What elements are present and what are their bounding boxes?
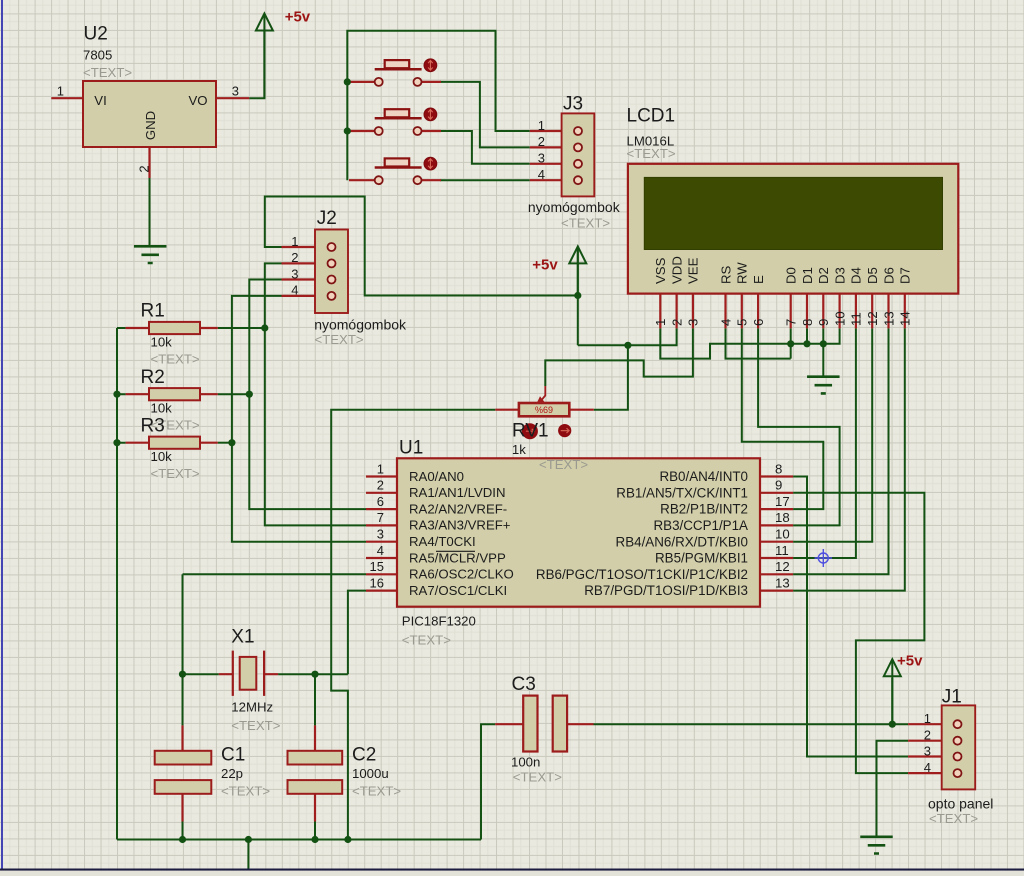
connector J1 opto panel — [942, 705, 976, 789]
connector J2 — [315, 230, 348, 314]
wire RV1 wiper to LCD VEE — [545, 328, 693, 386]
wire C3 right to +5v node to J1 pin1 — [594, 723, 909, 725]
wire LCD E to U1 RB3 — [758, 328, 840, 525]
svg-text:<TEXT>: <TEXT> — [221, 784, 270, 799]
capacitor C2 1000u — [288, 751, 343, 765]
svg-text:+5v: +5v — [532, 257, 558, 274]
svg-text:1: 1 — [57, 84, 64, 99]
wire C1 bottom to bus — [182, 822, 184, 840]
svg-text:2: 2 — [669, 319, 684, 326]
svg-text:RV1: RV1 — [512, 421, 549, 442]
wire RV1 pin1 to ground bus — [331, 410, 495, 840]
svg-text:3: 3 — [291, 266, 298, 281]
wire X1 right to U1 RA7 — [348, 591, 366, 675]
wire U1 RB0 to J1 pin3 — [793, 477, 908, 757]
svg-text:1: 1 — [538, 118, 545, 133]
resistor R2 10k — [149, 388, 200, 400]
wire U2 VO to +5v arrow — [249, 31, 264, 99]
svg-text:C1: C1 — [221, 745, 245, 766]
connector J3 — [562, 113, 595, 196]
svg-text:D5: D5 — [865, 267, 880, 284]
svg-text:2: 2 — [291, 250, 298, 265]
potentiometer RV1 1k body — [519, 403, 569, 416]
wire LCD D7 to U1 RB7 — [793, 328, 905, 590]
svg-text:U2: U2 — [84, 24, 108, 45]
wire U1 RB1 to J1 pin4 — [793, 493, 924, 773]
svg-text:<TEXT>: <TEXT> — [151, 466, 200, 481]
C3 lead stubs — [495, 723, 593, 725]
push button 3 — [375, 166, 422, 169]
svg-text:VI: VI — [94, 93, 106, 108]
microcontroller U1 PIC18F1320 body — [397, 458, 760, 606]
ground under J1 pin2 — [860, 837, 893, 854]
wire +5v arrow stem at J1 — [891, 678, 893, 724]
wire R2 right to junction — [218, 393, 250, 395]
svg-text:7805: 7805 — [83, 48, 112, 63]
power +5v at U2 output — [256, 14, 273, 31]
svg-text:1k: 1k — [512, 442, 526, 457]
junction R1 right — [261, 324, 268, 331]
svg-text:<TEXT>: <TEXT> — [513, 770, 562, 785]
svg-text:RB6/PGC/T1OSO/T1CKI/P1C/KBI2: RB6/PGC/T1OSO/T1CKI/P1C/KBI2 — [536, 567, 748, 582]
push button 2 — [375, 117, 422, 120]
svg-text:D4: D4 — [849, 267, 864, 284]
C1 C2 lead stubs — [183, 725, 316, 821]
wire J2 pin2 / R1 / U1 RA3 net riser — [265, 263, 366, 525]
svg-text:1: 1 — [653, 319, 668, 326]
svg-text:4: 4 — [924, 760, 931, 775]
svg-text:16: 16 — [370, 575, 384, 590]
svg-text:10k: 10k — [151, 401, 173, 416]
wire LCD RS to ground rail — [726, 328, 791, 358]
svg-text:7: 7 — [377, 510, 384, 525]
svg-text:RB5/PGM/KBI1: RB5/PGM/KBI1 — [655, 551, 748, 566]
wire U2 GND pin to ground — [149, 178, 151, 246]
sheet border bottom — [0, 869, 1024, 871]
svg-text:4: 4 — [538, 167, 545, 182]
wire LCD D1 riser — [806, 328, 808, 343]
resistor R3 10k — [149, 437, 200, 449]
svg-text:RW: RW — [735, 262, 750, 284]
wire buttons-common top bus to J3 pin1 — [347, 31, 530, 180]
junction R3 left — [113, 439, 120, 446]
wire button2 to J3 pin3 — [440, 131, 530, 164]
svg-text:12: 12 — [865, 311, 880, 326]
pin stubs U1 left — [366, 477, 397, 591]
svg-text:<TEXT>: <TEXT> — [352, 784, 401, 799]
wire LCD D5 to U1 RB4 — [793, 328, 872, 541]
regulator U2 7805 body — [83, 81, 216, 147]
svg-text:D6: D6 — [881, 267, 896, 284]
X1 lead stubs — [219, 673, 278, 675]
wire J2 pin1 to +5v node — [265, 197, 578, 296]
LCD screen — [644, 177, 942, 249]
wire C1 top lead green — [182, 674, 184, 725]
wire J1 pin2 to ground — [877, 741, 909, 837]
svg-text:3: 3 — [686, 319, 701, 326]
svg-text:nyomógombok: nyomógombok — [528, 199, 621, 215]
svg-text:J1: J1 — [942, 687, 962, 708]
svg-text:GND: GND — [143, 111, 158, 140]
svg-text:4: 4 — [718, 319, 733, 326]
svg-text:4: 4 — [291, 283, 298, 298]
svg-text:RB2/P1B/INT2: RB2/P1B/INT2 — [660, 502, 748, 517]
pin stubs buttons — [349, 81, 441, 83]
svg-text:12MHz: 12MHz — [231, 700, 273, 715]
wire R1 right to junction — [218, 327, 265, 329]
crystal X1 12MHz — [240, 657, 257, 690]
resistor R1 10k — [149, 322, 200, 334]
wire C2 bottom to bus — [314, 822, 316, 840]
svg-text:J2: J2 — [317, 208, 337, 229]
svg-text:10k: 10k — [151, 335, 173, 350]
junction X1 left / C1 — [179, 671, 186, 678]
svg-text:RB4/AN6/RX/DT/KBI0: RB4/AN6/RX/DT/KBI0 — [616, 534, 748, 549]
junction RV1 pin2 / VDD rail — [624, 342, 631, 349]
wire bottom ground bus — [117, 839, 481, 841]
junction LCD D2 ground rail — [820, 340, 827, 347]
svg-text:RA0/AN0: RA0/AN0 — [409, 469, 464, 484]
wire J2 pin4 / R3 / U1 RA4 net riser — [232, 296, 366, 542]
junction R2 right — [246, 391, 253, 398]
junction +5v at J1 pin1 — [889, 721, 896, 728]
svg-text:9: 9 — [816, 319, 831, 326]
svg-text:<TEXT>: <TEXT> — [929, 811, 978, 826]
svg-text:D2: D2 — [816, 267, 831, 284]
svg-text:D7: D7 — [898, 267, 913, 284]
svg-text:14: 14 — [898, 311, 913, 326]
svg-text:13: 13 — [775, 575, 790, 590]
U1 MCLR overline — [436, 550, 475, 552]
svg-text:RA6/OSC2/CLKO: RA6/OSC2/CLKO — [409, 567, 514, 582]
junction +5v node near LCD — [574, 292, 581, 299]
wire LCD D4 to U1 RB5 — [793, 328, 856, 558]
svg-text:1: 1 — [377, 461, 384, 476]
wire +5v rail to LCD VDD — [578, 328, 677, 345]
wire LCD D6 to U1 RB6 — [793, 328, 888, 574]
wire X1 right node — [278, 673, 348, 675]
svg-text:<TEXT>: <TEXT> — [402, 633, 451, 648]
svg-text:18: 18 — [775, 510, 790, 525]
svg-text:1: 1 — [924, 711, 931, 726]
svg-text:3: 3 — [924, 743, 931, 758]
svg-text:D3: D3 — [832, 267, 847, 284]
svg-text:RB1/AN5/TX/CK/INT1: RB1/AN5/TX/CK/INT1 — [616, 485, 748, 500]
junction C1 ground bus — [179, 836, 186, 843]
sheet border left — [1, 0, 3, 869]
wire LCD D0 riser — [790, 328, 792, 358]
wire C2 top lead green — [314, 674, 316, 725]
LCD LCD1 LM016L body — [628, 164, 958, 294]
junction R3 right — [228, 439, 235, 446]
junction C2 ground bus — [311, 836, 318, 843]
svg-text:%69: %69 — [535, 405, 553, 415]
svg-text:1: 1 — [291, 234, 298, 249]
svg-text:opto panel: opto panel — [928, 796, 993, 812]
wire LCD D2 riser and ground stem — [822, 328, 824, 376]
svg-text:3: 3 — [538, 151, 545, 166]
svg-text:13: 13 — [881, 311, 896, 326]
svg-text:RB0/AN4/INT0: RB0/AN4/INT0 — [659, 469, 748, 484]
svg-text:C2: C2 — [352, 745, 376, 766]
wire J2 pin3 / R2 / U1 RA2 net riser — [249, 280, 366, 510]
svg-text:1000u: 1000u — [352, 766, 389, 781]
junction RV1 path ground bus — [344, 836, 351, 843]
svg-text:2: 2 — [377, 478, 384, 493]
svg-text:C3: C3 — [512, 674, 536, 695]
svg-text:15: 15 — [370, 559, 384, 574]
wire X1 left riser — [182, 574, 184, 674]
svg-text:VDD: VDD — [669, 256, 684, 284]
svg-text:100n: 100n — [511, 755, 540, 770]
svg-text:11: 11 — [775, 543, 789, 558]
wire X1 left lead — [183, 673, 219, 675]
svg-text:R3: R3 — [141, 415, 165, 436]
ground under LCD D2 — [807, 377, 840, 394]
svg-text:7: 7 — [784, 319, 799, 326]
wire +5v stem down to VDD rail — [577, 248, 579, 345]
junction button2 common — [344, 127, 351, 134]
push button 1 — [375, 68, 422, 71]
svg-text:22p: 22p — [221, 766, 243, 781]
svg-text:<TEXT>: <TEXT> — [231, 718, 280, 733]
RV1 actuator knobs — [522, 423, 538, 439]
svg-text:RB7/PGD/T1OSI/P1D/KBI3: RB7/PGD/T1OSI/P1D/KBI3 — [584, 583, 748, 598]
wire LCD VSS to ground rail D0-D3 — [660, 328, 839, 358]
svg-text:<TEXT>: <TEXT> — [561, 216, 610, 231]
junction R2 left — [113, 391, 120, 398]
svg-text:D0: D0 — [784, 267, 799, 284]
svg-text:RA5/MCLR/VPP: RA5/MCLR/VPP — [409, 550, 506, 565]
svg-text:2: 2 — [137, 165, 152, 172]
junction button1 common — [344, 78, 351, 85]
svg-text:<TEXT>: <TEXT> — [83, 65, 132, 80]
svg-text:3: 3 — [232, 84, 239, 99]
svg-text:RB3/CCP1/P1A: RB3/CCP1/P1A — [653, 518, 748, 533]
wire LCD RW to U1 RB2 — [742, 328, 824, 509]
svg-text:2: 2 — [924, 728, 931, 743]
wire resistor left leads — [117, 328, 126, 443]
wire left vertical bus R1-R2-R3 to ground bus — [116, 328, 118, 840]
pin stubs J3 — [530, 130, 562, 132]
svg-text:RA2/AN2/VREF-: RA2/AN2/VREF- — [409, 501, 507, 516]
svg-text:<TEXT>: <TEXT> — [315, 332, 364, 347]
svg-text:5: 5 — [735, 319, 750, 326]
svg-text:<TEXT>: <TEXT> — [539, 457, 588, 472]
RV1 lead stubs — [495, 409, 594, 411]
svg-text:6: 6 — [751, 319, 766, 326]
svg-text:RS: RS — [718, 265, 733, 284]
svg-text:nyomógombok: nyomógombok — [314, 317, 407, 333]
power +5v at J1 — [884, 659, 901, 676]
svg-text:X1: X1 — [231, 627, 254, 648]
wire U1 RA6 to X1 left node — [183, 573, 367, 575]
capacitor C3 100n — [523, 696, 537, 752]
svg-text:VEE: VEE — [686, 257, 701, 284]
capacitor C1 22p — [155, 751, 212, 765]
junction LCD D0 ground rail — [787, 340, 794, 347]
svg-text:3: 3 — [377, 527, 384, 542]
junction X1 right / C2 — [311, 671, 318, 678]
wire bus stub to sheet edge — [247, 840, 249, 870]
svg-text:<TEXT>: <TEXT> — [151, 352, 200, 367]
svg-text:8: 8 — [775, 461, 782, 476]
svg-text:RA4/T0CKI: RA4/T0CKI — [409, 534, 476, 549]
svg-text:10k: 10k — [151, 449, 173, 464]
svg-text:LCD1: LCD1 — [627, 106, 676, 127]
svg-text:10: 10 — [832, 311, 847, 326]
wire R3 right to junction — [218, 442, 232, 444]
svg-text:+5v: +5v — [897, 653, 923, 670]
wire button3 to J3 pin4 — [440, 179, 530, 181]
svg-text:9: 9 — [775, 478, 782, 493]
svg-text:8: 8 — [800, 319, 815, 326]
svg-text:4: 4 — [377, 543, 384, 558]
junction bus stub — [245, 836, 252, 843]
pin stubs R1 R2 R3 — [126, 328, 218, 443]
svg-text:+5v: +5v — [285, 9, 311, 26]
svg-text:<TEXT>: <TEXT> — [627, 146, 676, 161]
wire RV1 pin2 riser to +5v rail — [594, 345, 628, 409]
svg-text:RA1/AN1/LVDIN: RA1/AN1/LVDIN — [409, 485, 506, 500]
svg-text:E: E — [751, 275, 766, 284]
svg-text:PIC18F1320: PIC18F1320 — [402, 614, 476, 629]
pin stubs LCD — [660, 294, 905, 329]
wire C3 left down to ground bus — [481, 724, 495, 839]
svg-text:J3: J3 — [563, 94, 583, 115]
junction LCD D1 ground rail — [803, 340, 810, 347]
svg-text:RA3/AN3/VREF+: RA3/AN3/VREF+ — [409, 518, 511, 533]
svg-text:2: 2 — [538, 134, 545, 149]
svg-text:R2: R2 — [141, 367, 165, 388]
RV1 wiper arrow — [542, 386, 546, 400]
svg-text:12: 12 — [775, 559, 790, 574]
svg-text:6: 6 — [377, 494, 384, 509]
svg-text:VO: VO — [188, 93, 207, 108]
wire button1 to J3 pin2 — [440, 82, 530, 147]
pin stubs J2 — [282, 246, 316, 248]
svg-text:VSS: VSS — [653, 257, 668, 284]
ground under U2 — [134, 246, 167, 263]
svg-text:11: 11 — [849, 312, 864, 326]
svg-text:U1: U1 — [399, 438, 423, 459]
pin stubs U2 — [51, 98, 249, 178]
svg-text:10: 10 — [775, 527, 790, 542]
blue origin marker — [818, 553, 828, 563]
svg-text:RA7/OSC1/CLKI: RA7/OSC1/CLKI — [409, 583, 507, 598]
svg-text:R1: R1 — [141, 301, 165, 322]
svg-text:17: 17 — [775, 494, 790, 509]
pin stubs U1 right — [760, 477, 793, 591]
svg-text:D1: D1 — [800, 267, 815, 284]
power +5v near LCD — [569, 246, 586, 263]
pin stubs J1 — [908, 723, 942, 725]
